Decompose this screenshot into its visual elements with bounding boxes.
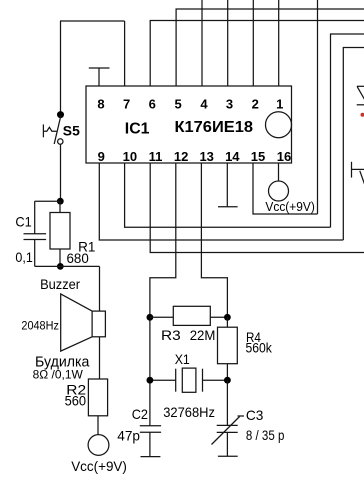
wire: right vertical bus from top edge down to pin15 line [317, 0, 319, 214]
svg-text:560k: 560k [246, 340, 273, 356]
switch S5 bottom contact circle [58, 139, 63, 144]
wire: pin 9 down then right to riser x=343.3 [99, 163, 343, 240]
svg-text:C1: C1 [15, 214, 32, 230]
svg-text:9: 9 [98, 149, 105, 164]
pin 14 open terminal T-bar [218, 163, 238, 207]
wire: pin 11 down then right to edge [150, 163, 364, 253]
resistor R4 [218, 317, 238, 380]
wire: below switch down to C1/R1 node [60, 144, 62, 201]
Vcc(+9V) terminal circle at pin 16 [269, 181, 289, 201]
wire: X1 to right rail [203, 379, 228, 381]
svg-text:1: 1 [276, 97, 283, 112]
wire: S5 top vertical to pin7 routing [60, 21, 62, 115]
resistor R3 [173, 306, 210, 325]
node: R1/C1 bottom junction dot [57, 263, 64, 270]
svg-text:8Ω /0,1W: 8Ω /0,1W [33, 368, 84, 382]
node: C1/R1/S5 junction dot [57, 198, 64, 205]
wire: down to buzzer [99, 266, 101, 311]
svg-text:S5: S5 [63, 122, 80, 138]
wire: pin 1 off top edge [278, 0, 280, 86]
svg-text:C2: C2 [132, 406, 148, 422]
wire: pin 3 off top edge [227, 0, 229, 86]
svg-text:32768Hz: 32768Hz [163, 404, 215, 420]
wire: node to C1 branch [35, 200, 61, 202]
switch S5 top contact junction dot [57, 111, 64, 118]
wire: pin 13 down, jog right, to R3/R4 node [201, 163, 227, 317]
node: left rail / R3 junction dot [147, 314, 154, 321]
svg-text:14: 14 [225, 149, 240, 164]
wire: left rail to X1 [150, 379, 176, 381]
pin 1 marker circle inside IC [266, 112, 292, 138]
svg-text:2: 2 [252, 97, 259, 112]
capacitor C2 [140, 426, 161, 457]
svg-text:12: 12 [174, 149, 188, 164]
resistor R2 [88, 379, 107, 435]
wire: pin 5 up and right to edge [176, 9, 364, 86]
svg-text:3: 3 [226, 97, 233, 112]
red label mark (cut off) [361, 113, 364, 117]
wire: R3 right to node [210, 316, 227, 318]
svg-text:C3: C3 [246, 407, 264, 423]
node: left rail / X1 / C2 junction dot [147, 377, 154, 384]
svg-text:R3: R3 [161, 327, 181, 343]
switch S5 pushbutton actuator bar [42, 124, 44, 137]
svg-text:7: 7 [123, 97, 130, 112]
crystal X1 [176, 368, 203, 392]
svg-text:Vcc(+9V): Vcc(+9V) [265, 199, 314, 214]
wire: corner from right edge y=34 down to pin10 bus [331, 34, 364, 227]
wire: pin 12 down, jog left, oscillator left rail [150, 163, 176, 426]
wire: pin 15 down and right to right bus [253, 163, 318, 214]
svg-text:13: 13 [199, 149, 213, 164]
svg-text:11: 11 [149, 149, 163, 164]
node: R3/R4/pin13 junction dot [224, 314, 231, 321]
svg-text:47p: 47p [117, 428, 140, 444]
svg-text:IC1: IC1 [125, 120, 150, 137]
wire: pin 7 stub down to IC [124, 21, 126, 86]
switch S5 actuator zigzag link [43, 127, 56, 131]
diode (cut off at right edge) [357, 86, 364, 105]
svg-text:К176ИЕ18: К176ИЕ18 [175, 119, 254, 136]
svg-text:560: 560 [65, 393, 87, 409]
svg-text:6: 6 [149, 97, 156, 112]
svg-text:Vcc(+9V): Vcc(+9V) [71, 458, 127, 474]
wire: bottom node across to buzzer [35, 265, 100, 267]
capacitor C1 [24, 201, 47, 266]
wire: buzzer to R2 [99, 337, 101, 379]
switch S5 arm [54, 116, 61, 145]
buzzer speaker symbol [61, 294, 106, 351]
wire: node to R3 left [150, 316, 173, 318]
capacitor C3 (trimmer) [212, 380, 245, 456]
node: right rail / X1 / C3 junction dot [224, 377, 231, 384]
wire: pin 4 off top edge [201, 0, 203, 86]
svg-text:15: 15 [251, 149, 265, 164]
wire: corner from right edge y=47.5 down to pin9 bus [343, 48, 364, 241]
svg-text:X1: X1 [175, 351, 190, 367]
svg-text:5: 5 [174, 97, 181, 112]
svg-text:8 / 35 p: 8 / 35 p [246, 427, 285, 443]
wire: pin 2 off top edge [252, 0, 254, 86]
op IC1 body rectangle [86, 86, 292, 163]
pin 8 open terminal T-bar [89, 68, 110, 86]
wire: pin 6 up and right to edge [150, 21, 364, 87]
svg-text:8: 8 [97, 97, 104, 112]
wire: pin 10 down then right to riser x=330.5 [125, 163, 331, 227]
transistor base bar (cut off at right edge) [352, 162, 364, 184]
resistor R1 [50, 201, 70, 266]
svg-text:22M: 22M [190, 327, 216, 343]
svg-text:680: 680 [67, 250, 90, 266]
wire: horizontal y=21 S5 to pin 7 [60, 20, 125, 22]
svg-text:16: 16 [277, 149, 291, 164]
svg-text:2048Hz: 2048Hz [21, 320, 59, 332]
svg-text:4: 4 [200, 97, 208, 112]
svg-text:10: 10 [123, 149, 137, 164]
wire: pin 16 stub to Vcc circle [278, 163, 280, 181]
Vcc terminal circle bottom [88, 435, 109, 456]
svg-text:0,1: 0,1 [15, 249, 33, 265]
svg-text:Buzzer: Buzzer [40, 276, 80, 292]
